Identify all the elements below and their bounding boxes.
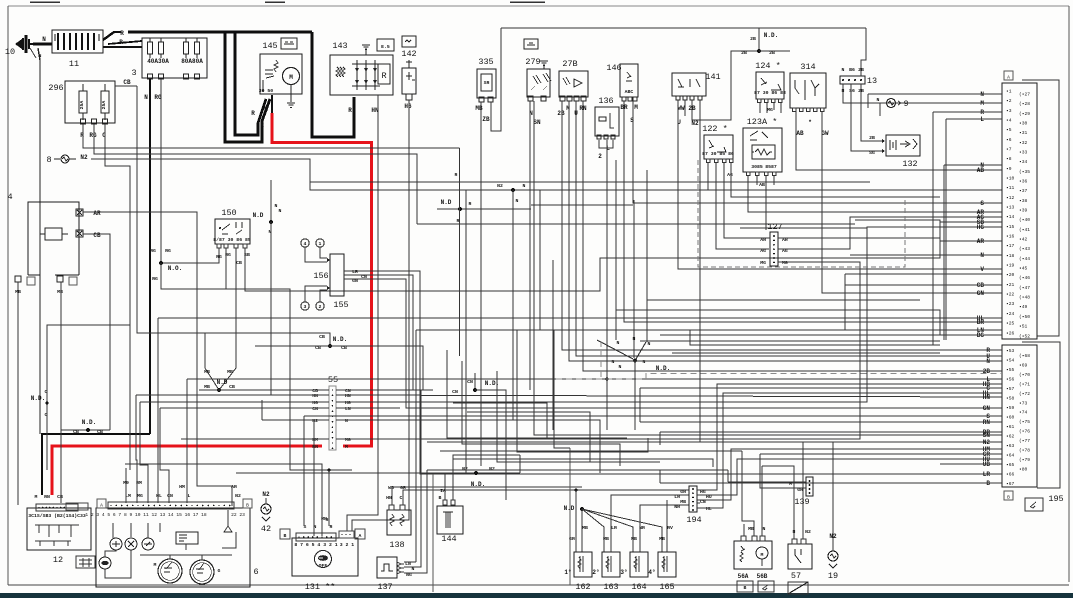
svg-text:HL: HL: [156, 493, 162, 499]
svg-text:GR: GR: [680, 489, 686, 495]
svg-text:MB: MB: [204, 384, 210, 390]
junction N.D. injector feed: [564, 505, 662, 552]
svg-text:▪31: ▪31: [1019, 130, 1028, 136]
svg-text:N: N: [617, 340, 620, 346]
svg-text:▪17: ▪17: [1006, 243, 1015, 249]
svg-text:B: B: [246, 503, 249, 509]
svg-text:AR: AR: [231, 484, 237, 490]
svg-text:6: 6: [253, 567, 258, 577]
wires from 136 merge down: [599, 140, 607, 148]
wires from 137 right and up: [404, 561, 416, 563]
svg-text:N: N: [980, 252, 984, 259]
junction N2-N upper middle: [466, 183, 708, 420]
wire C from 296 down and across: [105, 124, 130, 470]
wire mesh filler right band 3: [647, 300, 920, 338]
svg-text:A: A: [359, 533, 362, 539]
svg-text:RG: RG: [165, 248, 171, 254]
svg-text:2: 2: [319, 304, 322, 310]
svg-text:MB: MB: [659, 536, 665, 542]
svg-text:CB: CB: [73, 429, 79, 435]
junction N2 lower: [236, 466, 520, 488]
wire BR from 146 down: [624, 101, 1002, 322]
wire B rail into B: [660, 482, 1002, 484]
wire AB from 314 down to A rail: [796, 112, 1002, 170]
ground 42: [261, 491, 271, 521]
svg-text:▪15: ▪15: [1006, 224, 1015, 230]
wire mesh filler right band 1: [690, 330, 940, 345]
svg-text:CB: CB: [319, 334, 325, 340]
svg-text:143: 143: [332, 41, 347, 51]
svg-text:▪49: ▪49: [1019, 304, 1028, 310]
sensor 27B: [559, 71, 588, 101]
wire WW stub from 141: [684, 100, 686, 116]
svg-text:M: M: [761, 552, 764, 558]
svg-text:N.D.: N.D.: [82, 419, 96, 426]
wire RN rail into B: [640, 421, 1002, 423]
svg-text:165: 165: [659, 582, 674, 592]
svg-text:WW: WW: [677, 105, 685, 112]
svg-text:R: R: [80, 132, 84, 139]
svg-text:MB: MB: [227, 369, 233, 375]
svg-text:N2: N2: [262, 491, 270, 498]
svg-text:▪34: ▪34: [1019, 159, 1028, 165]
junction R N.D. upper middle: [437, 148, 531, 356]
svg-text:RN: RN: [44, 494, 50, 500]
connector 139: [806, 477, 813, 496]
svg-text:LR: LR: [352, 269, 358, 275]
svg-text:A: A: [1007, 75, 1010, 81]
svg-text:▪60: ▪60: [1006, 415, 1015, 421]
wire AR out of 127 right: [778, 238, 1002, 241]
svg-text:124 *: 124 *: [755, 61, 781, 71]
svg-text:(▪28: (▪28: [1019, 101, 1030, 107]
svg-text:R: R: [260, 122, 264, 129]
svg-text:N: N: [633, 336, 636, 342]
svg-text:146: 146: [606, 63, 621, 73]
svg-text:BG: BG: [977, 332, 985, 339]
sensor 136: [595, 107, 619, 139]
svg-text:(▪50: (▪50: [1019, 314, 1030, 320]
svg-text:22 23: 22 23: [231, 512, 245, 518]
svg-text:8587: 8587: [765, 164, 777, 170]
svg-text:▪32: ▪32: [1019, 140, 1028, 146]
svg-text:N2: N2: [312, 418, 318, 424]
svg-text:MG: MG: [137, 493, 143, 499]
svg-text:56A: 56A: [738, 573, 749, 580]
wire CB from 296 to right: [115, 85, 137, 87]
wire C branch to junction: [47, 325, 130, 470]
svg-text:27B: 27B: [562, 59, 577, 69]
wires from 124 short stubs: [759, 103, 761, 113]
svg-text:AB: AB: [977, 167, 985, 174]
wire CN junction right and down: [475, 390, 506, 500]
svg-text:B: B: [439, 495, 442, 501]
fusible link block 11: [52, 30, 103, 53]
svg-text:(▪35: (▪35: [1019, 169, 1030, 175]
wire MB from 335 long down: [480, 102, 482, 466]
sensor 142: [402, 60, 416, 100]
svg-text:123A *: 123A *: [747, 117, 778, 127]
svg-text:42: 42: [261, 524, 271, 534]
svg-text:56B: 56B: [757, 573, 768, 580]
wire 2B from 141 up to junction rail: [692, 51, 759, 120]
svg-text:▪21: ▪21: [1006, 282, 1015, 288]
svg-text:▪30: ▪30: [1019, 121, 1028, 127]
svg-text:*: *: [808, 119, 812, 126]
ignition switch 131: [292, 531, 358, 576]
icon box A right of 131: [355, 529, 365, 539]
wire mesh filler staircase 5: [554, 330, 570, 448]
wire L vertical down from A pin4: [945, 119, 947, 340]
ground 19: [828, 442, 838, 568]
svg-text:(▪40: (▪40: [1019, 217, 1030, 223]
wire N to A at y165: [944, 164, 1002, 166]
svg-text:HM: HM: [312, 437, 318, 443]
svg-text:145: 145: [262, 41, 277, 51]
svg-text:N2: N2: [805, 529, 811, 535]
multi-pin connector B: [1002, 342, 1060, 488]
wire R from 296 right to R junction: [83, 124, 460, 148]
svg-text:▪23: ▪23: [1006, 301, 1015, 307]
svg-text:C: C: [45, 412, 48, 418]
svg-text:1: 1: [319, 241, 322, 247]
wire GW from 314 down to A GN rail: [822, 112, 1002, 293]
svg-text:▪20: ▪20: [1006, 272, 1015, 278]
svg-text:▪62: ▪62: [1006, 434, 1015, 440]
svg-text:▪57: ▪57: [1006, 386, 1015, 392]
wires from 27B down to B rails: [562, 101, 1002, 350]
svg-text:R: R: [381, 71, 386, 81]
connector block 4: [15, 202, 83, 285]
svg-text:M: M: [154, 562, 157, 568]
svg-text:M: M: [345, 444, 348, 450]
wire mesh filler y353: [672, 352, 940, 354]
relay 314: [790, 73, 826, 112]
relay 123A: [743, 128, 782, 176]
svg-text:M: M: [264, 106, 268, 113]
svg-text:40A30A: 40A30A: [147, 58, 169, 65]
svg-text:MG: MG: [345, 437, 351, 443]
wire CB relay 150 pin down to V junction: [219, 248, 236, 390]
svg-text:2B: 2B: [983, 368, 991, 375]
svg-text:(▪48: (▪48: [1019, 295, 1030, 301]
wire HM/MG through 55: [181, 438, 329, 440]
svg-text:(▪76: (▪76: [1019, 429, 1030, 435]
battery 10: [15, 35, 36, 58]
icon box above 145: [281, 38, 297, 49]
instrument cluster 6: [85, 499, 252, 587]
wire mesh filler vertical x553: [552, 260, 554, 430]
wire RV drop to 165: [666, 500, 668, 552]
wire mesh filler staircase 1: [447, 350, 627, 438]
svg-text:C: C: [45, 389, 48, 395]
svg-text:S6: S6: [849, 88, 855, 94]
svg-text:SR: SR: [484, 80, 490, 86]
sensor 279: [527, 61, 551, 101]
svg-text:N2: N2: [80, 154, 88, 161]
icon box beside 12: [76, 556, 95, 568]
2B rail across top: [501, 27, 866, 29]
sensor 335: [477, 69, 496, 102]
wire M stub from starter motor: [271, 95, 273, 113]
svg-text:▪11: ▪11: [1006, 185, 1015, 191]
svg-text:335: 335: [478, 57, 493, 67]
wire U from 141 down to A: [678, 100, 1002, 269]
junction N diagonal pair: [597, 160, 1002, 430]
relay 141: [672, 73, 706, 100]
svg-text:N: N: [619, 364, 622, 370]
svg-text:9: 9: [903, 99, 908, 109]
wire LR drop to 163: [611, 495, 689, 552]
svg-text:UB: UB: [983, 461, 991, 468]
ecu box in cluster 6: [176, 532, 198, 544]
svg-text:(▪46: (▪46: [1019, 275, 1030, 281]
svg-text:R: R: [119, 39, 123, 46]
wire N from battery down left side: [38, 48, 40, 434]
thick loop inner: [235, 32, 266, 135]
internal rails cluster 6: [112, 523, 114, 538]
injector 164: [630, 552, 648, 577]
svg-text:156: 156: [313, 271, 328, 281]
wire mesh y442 left extension: [427, 441, 700, 443]
svg-text:R: R: [455, 172, 458, 178]
svg-text:CB: CB: [123, 79, 131, 86]
wire ZB from 335 up to 2B rail: [491, 28, 501, 131]
svg-text:M: M: [566, 105, 570, 112]
wires to 57: [762, 466, 794, 539]
device 12: [27, 503, 91, 550]
wire mesh filler mid 1: [453, 403, 547, 438]
wire M into 139: [728, 481, 806, 483]
svg-text:N: N: [648, 341, 651, 347]
wire GR drop to 162: [575, 490, 577, 552]
svg-text:N: N: [612, 359, 615, 365]
icon box E5 beside 143: [377, 39, 394, 51]
svg-text:N: N: [980, 91, 984, 98]
svg-text:3 2 1: 3 2 1: [340, 542, 355, 548]
svg-text:RG: RG: [216, 254, 222, 260]
svg-text:OFF: OFF: [319, 563, 328, 569]
wire L long down to B: [606, 140, 608, 430]
svg-text:B: B: [284, 533, 287, 539]
svg-text:150: 150: [221, 208, 236, 218]
svg-text:▪19: ▪19: [1006, 263, 1015, 269]
svg-text:N: N: [345, 418, 348, 424]
wire RG down from junction and to the right: [161, 263, 352, 470]
thick loop outer - R feed down to starter 145: [225, 32, 270, 142]
svg-text:N.D.: N.D.: [656, 365, 670, 372]
wire S from 146 down: [633, 101, 1002, 203]
svg-text:R: R: [348, 107, 352, 114]
wire mesh filler step SB-LN: [539, 258, 541, 330]
svg-text:30 50: 30 50: [259, 88, 274, 94]
svg-text:▪8: ▪8: [1006, 156, 1012, 162]
svg-text:GR: GR: [569, 536, 575, 542]
wire HN from 143: [347, 95, 378, 531]
relay 124: [754, 72, 786, 103]
wire mesh filler horizontal y205: [531, 204, 633, 206]
wire L rail to instrument cluster and B connector: [187, 378, 1002, 380]
fuse block 296: [65, 81, 115, 124]
svg-text:ZB: ZB: [482, 116, 490, 123]
svg-text:▪36: ▪36: [1019, 179, 1028, 185]
svg-text:N: N: [643, 359, 646, 365]
svg-text:▪59: ▪59: [1006, 405, 1015, 411]
gauge speedometer in cluster 6: [158, 559, 182, 583]
svg-text:▪65: ▪65: [1006, 462, 1015, 468]
wire LN rail with 137 drop: [416, 329, 1002, 331]
svg-text:1 2 3 4 5 6 7 8 9 10 11 12 13: 1 2 3 4 5 6 7 8 9 10 11 12 13 14 15 16 1…: [85, 512, 207, 518]
wires from 122 down: [708, 163, 1002, 190]
scan fold vertical near 137: [432, 474, 434, 592]
wire MB stubs from block 4: [17, 282, 19, 505]
junction CB mid: [137, 86, 423, 390]
svg-text:SN: SN: [533, 119, 541, 126]
switch 57: [788, 539, 812, 569]
svg-text:163: 163: [603, 582, 618, 592]
wire N stubs top right: [867, 94, 869, 108]
svg-text:MB: MB: [475, 105, 483, 112]
svg-text:L: L: [188, 493, 191, 499]
svg-text:3C1S/SB3 (B2(1S4)C33: 3C1S/SB3 (B2(1S4)C33: [28, 513, 86, 519]
wires from 144 up: [444, 473, 446, 500]
svg-text:(▪41: (▪41: [1019, 227, 1030, 233]
junction MB-CB N.D.: [199, 369, 235, 392]
svg-text:80A80A: 80A80A: [181, 58, 203, 65]
icon box above 279: [524, 39, 538, 49]
svg-text:RG: RG: [154, 94, 162, 101]
svg-text:▪13: ▪13: [1006, 205, 1015, 211]
injector 165: [658, 552, 676, 577]
svg-text:C: C: [102, 132, 106, 139]
svg-text:AR: AR: [977, 238, 985, 245]
svg-text:S: S: [980, 200, 984, 207]
svg-text:(▪71: (▪71: [1019, 381, 1030, 387]
component 132: [882, 135, 920, 156]
svg-text:N.D: N.D: [253, 212, 264, 219]
wire mesh filler horizontal y224: [417, 223, 855, 225]
wire mesh filler staircase 2: [462, 361, 620, 466]
svg-text:▪55: ▪55: [1006, 367, 1015, 373]
wire GR to 138 from 194: [403, 490, 689, 505]
wire mesh y470 run: [427, 469, 728, 471]
svg-text:(▪77: (▪77: [1019, 438, 1030, 444]
wire N to A at y255: [940, 254, 1002, 256]
svg-text:HN: HN: [312, 393, 318, 399]
svg-text:MG: MG: [767, 107, 773, 113]
svg-text:N.O.: N.O.: [168, 265, 182, 272]
relay 122: [702, 135, 734, 163]
svg-text:11: 11: [69, 59, 79, 69]
svg-text:▪58: ▪58: [1006, 396, 1015, 402]
svg-text:2B: 2B: [557, 110, 565, 117]
svg-text:HN: HN: [345, 393, 351, 399]
svg-text:195: 195: [1048, 494, 1063, 504]
icon boxes below 56: [737, 581, 753, 592]
svg-text:▪25: ▪25: [1006, 321, 1015, 327]
svg-text:AB: AB: [759, 182, 765, 188]
svg-text:(▪29: (▪29: [1019, 111, 1030, 117]
svg-text:2B: 2B: [741, 50, 747, 56]
svg-text:MB: MB: [204, 369, 210, 375]
svg-text:132: 132: [902, 159, 917, 169]
svg-text:C: C: [400, 495, 403, 501]
svg-text:LR: LR: [983, 471, 991, 478]
svg-text:2B: 2B: [750, 36, 756, 42]
wire NR drop to 164: [640, 505, 689, 552]
svg-text:RG: RG: [225, 252, 231, 258]
svg-text:MB: MB: [603, 536, 609, 542]
svg-text:2°: 2°: [592, 569, 599, 576]
svg-text:H6: H6: [404, 103, 412, 110]
wire M9 riser to cluster: [125, 468, 127, 503]
wire N from fuse 40A down - thick: [149, 79, 151, 434]
wire M to A at y103: [880, 102, 1002, 104]
wire SG from 13 down to 132: [851, 84, 884, 151]
red wire M - starter to connector 55 to device 12: [272, 113, 372, 446]
svg-text:ABC: ABC: [625, 89, 634, 95]
svg-text:122 *: 122 *: [702, 124, 728, 134]
svg-text:N: N: [523, 183, 526, 189]
svg-text:R: R: [330, 524, 333, 530]
svg-text:B: B: [986, 480, 990, 487]
junction 2B N.D. top: [741, 28, 790, 56]
svg-text:RG: RG: [152, 276, 158, 282]
svg-text:▪2: ▪2: [1006, 98, 1012, 104]
svg-text:NR: NR: [674, 504, 680, 510]
svg-text:▪38: ▪38: [1019, 198, 1028, 204]
svg-text:RM: RM: [136, 480, 142, 486]
svg-text:4: 4: [7, 192, 12, 202]
svg-text:55: 55: [328, 375, 338, 385]
svg-text:SN: SN: [983, 432, 991, 439]
warning lamp symbols in cluster 6: [110, 538, 122, 550]
wire HG through 55: [140, 401, 329, 403]
wire GR into 139 from B rail: [760, 453, 1002, 455]
wire R to A at y112: [933, 111, 1002, 113]
svg-text:57: 57: [791, 571, 801, 581]
wire SB relay 150 pin down then right: [245, 222, 1002, 291]
svg-text:MG: MG: [782, 260, 788, 266]
svg-text:137: 137: [377, 582, 392, 592]
wire HM from 194 up to B rail: [697, 449, 1002, 500]
wire RG from fuse 30A down: [160, 79, 162, 263]
wire N from junction down to ignition row: [512, 190, 514, 420]
wire N2 from ground 8 across and down: [91, 159, 466, 473]
wire R vertical down from A pin3: [932, 112, 934, 345]
svg-text:▪33: ▪33: [1019, 150, 1028, 156]
svg-text:M: M: [980, 100, 984, 107]
svg-text:▪24: ▪24: [1006, 311, 1015, 317]
svg-text:HN: HN: [983, 394, 991, 401]
wire N to A at y94: [868, 93, 1002, 95]
svg-text:N: N: [279, 208, 282, 214]
svg-text:(▪68: (▪68: [1019, 353, 1030, 359]
svg-text:LR: LR: [611, 525, 617, 531]
wire LR from 156: [344, 271, 1002, 474]
svg-text:314: 314: [800, 62, 815, 72]
svg-text:(▪52: (▪52: [1019, 333, 1030, 339]
svg-text:4: 4: [304, 241, 307, 247]
junction CB N.D. near 12: [61, 419, 110, 435]
svg-text:12: 12: [53, 555, 63, 565]
svg-text:▪1: ▪1: [1006, 89, 1012, 95]
svg-text:CN: CN: [452, 389, 458, 395]
svg-text:BR: BR: [977, 319, 985, 326]
svg-text:MB: MB: [57, 289, 63, 295]
svg-text:N: N: [516, 198, 519, 204]
svg-text:N: N: [39, 53, 42, 59]
